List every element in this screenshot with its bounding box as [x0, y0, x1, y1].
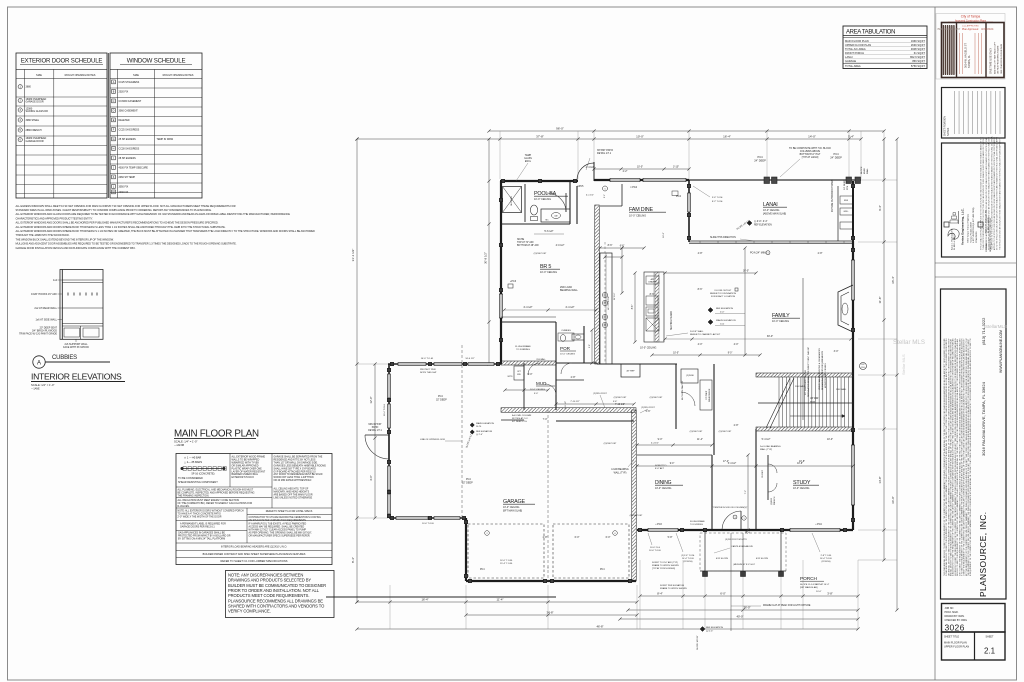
svg-text:16'-4": 16'-4"	[421, 598, 428, 602]
svg-text:10'-0" CEILING: 10'-0" CEILING	[534, 198, 551, 201]
stair bottom hatched wall	[756, 427, 853, 431]
svg-text:CONTRACTOR TO UTILIZE DECORATI: CONTRACTOR TO UTILIZE DECORATIVE CEMENTI…	[249, 516, 322, 519]
garage firewall top hatched	[501, 408, 636, 413]
top dimension line lower	[357, 138, 861, 140]
extension lines from top wall to dims	[499, 131, 501, 179]
svg-text:H: H	[113, 148, 115, 151]
line of upper floor dashed	[461, 345, 463, 518]
svg-text:36'-4": 36'-4"	[891, 276, 895, 284]
BR5 closet walls	[501, 321, 556, 323]
svg-text:PROTECT PER: PROTECT PER	[420, 369, 436, 371]
svg-text:48" COOKTOP: 48" COOKTOP	[608, 295, 610, 310]
svg-text:FRONT PORCH: FRONT PORCH	[845, 51, 864, 55]
pool bath vanity	[541, 209, 570, 222]
svg-text:OR MANUFACTURER SPECS SUPERSED: OR MANUFACTURER SPECS SUPERSEDE PER REFE…	[249, 534, 311, 537]
svg-text:City of Tampa: City of Tampa	[961, 15, 981, 19]
svg-text:9'-0": 9'-0"	[670, 463, 675, 465]
stamp inner box	[942, 23, 1005, 78]
svg-text:3060 CASEMENT: 3060 CASEMENT	[119, 110, 139, 113]
svg-text:E REQUIREMENT OF THE CURRENT F: E REQUIREMENT OF THE CURRENT FBC WE CANN…	[969, 338, 972, 576]
svg-text:FLUSH FRAME: FLUSH FRAME	[690, 520, 705, 523]
kitchen bearing wall hatched	[595, 205, 600, 364]
svg-text:+PC3: +PC3	[510, 280, 517, 283]
svg-text:6/12 SLOPE: 6/12 SLOPE	[716, 558, 729, 560]
svg-text:C/T PREP: C/T PREP	[706, 390, 708, 400]
door schedule row 5	[18, 128, 22, 132]
kitchen counters	[600, 253, 612, 364]
svg-text:PROJ. MGR.: PROJ. MGR.	[945, 611, 959, 614]
svg-text:16'-4" T.O.M.: 16'-4" T.O.M.	[820, 558, 832, 560]
svg-text:SIZE: SIZE	[133, 73, 139, 77]
svg-text:SLIDE THIS DIRECTION: SLIDE THIS DIRECTION	[710, 237, 736, 239]
svg-text:GARAGE DOOR: GARAGE DOOR	[26, 140, 44, 143]
svg-text:STRUCTURAL CERTIFICATION APPLI: STRUCTURAL CERTIFICATION APPLIES TO THE …	[980, 136, 983, 250]
svg-text:RESIDENCE AND ATTIC BY NOT LES: RESIDENCE AND ATTIC BY NOT LESS	[274, 458, 316, 461]
left overall dimension line	[356, 139, 358, 602]
kitchen dim lines	[634, 273, 636, 342]
svg-text:REF ELEVATION: REF ELEVATION	[716, 307, 733, 310]
svg-text:ALL EXTERIOR WINDOWS AND DOORS: ALL EXTERIOR WINDOWS AND DOORS SHALL BE …	[16, 221, 219, 225]
svg-text:FRAME FLAT AT PEAK FOR LIGHT F: FRAME FLAT AT PEAK FOR LIGHT FIXTURE	[763, 604, 811, 607]
svg-text:(X)2X6 POST: (X)2X6 POST	[614, 397, 627, 399]
svg-text:GARAGE DOOR INSTALLATION DETAI: GARAGE DOOR INSTALLATION DETAILS AND DAT…	[16, 246, 136, 250]
svg-text:GARAGE DOOR: GARAGE DOOR	[26, 101, 44, 104]
svg-text:34'-8": 34'-8"	[546, 611, 553, 615]
cooktop circles	[602, 292, 607, 297]
svg-text:2'-8": 2'-8"	[571, 376, 576, 379]
svg-text:DETAIL 1/7.1: DETAIL 1/7.1	[368, 429, 382, 432]
svg-text:TOP AT 72" AFF: TOP AT 72" AFF	[517, 241, 534, 244]
svg-text:AS PER OPENING. THE OPENING S: AS PER OPENING. THE OPENING SHALL BE MIN…	[249, 531, 313, 534]
svg-text:M: M	[113, 191, 115, 194]
svg-text:ES TO THE STRUCTURE ONLY AS SH: ES TO THE STRUCTURE ONLY AS SHOWN ON THE…	[996, 136, 999, 250]
title block divider line	[934, 7, 936, 680]
svg-text:7'-10 1/2": 7'-10 1/2"	[615, 403, 625, 406]
svg-text:ROUGH OPENING/NOTES: ROUGH OPENING/NOTES	[163, 74, 194, 77]
svg-text:WDB: WDB	[810, 401, 816, 403]
svg-text:COA 29639: COA 29639	[975, 231, 978, 243]
svg-text:BEARING WALL: BEARING WALL	[560, 289, 579, 292]
svg-text:C: C	[113, 100, 115, 103]
svg-text:10'-0" CEILING: 10'-0" CEILING	[793, 487, 809, 490]
svg-text:CUBBIES: CUBBIES	[52, 355, 77, 361]
svg-text:16'-4": 16'-4"	[723, 135, 731, 139]
ref elevation markers family	[708, 308, 713, 313]
svg-text:6'-8": 6'-8"	[620, 246, 625, 248]
svg-text:866 SQ/FT: 866 SQ/FT	[912, 59, 925, 63]
svg-text:SLIDING GLASS DR: SLIDING GLASS DR	[26, 110, 49, 113]
vortex engineering box	[942, 143, 1006, 257]
svg-text:REFER TO SHEET N.1 FOR LUMBER: REFER TO SHEET N.1 FOR LUMBER SPECIFICAT…	[221, 559, 288, 563]
left wing left wall	[388, 364, 390, 518]
svg-text:5'-0": 5'-0"	[534, 393, 539, 395]
svg-text:AND THE CITY HAS VALID COPY: AND THE CITY HAS VALID COPY	[993, 41, 996, 74]
svg-text:W/ TIES AT O.C.: W/ TIES AT O.C.	[512, 417, 529, 420]
svg-text:Nathan D. Hasbrook, P.E.: Nathan D. Hasbrook, P.E.	[985, 209, 988, 233]
svg-text:11'-4": 11'-4"	[497, 598, 504, 602]
svg-text:1: 1	[767, 253, 768, 255]
left wing bottom wall	[389, 517, 466, 519]
svg-text:ON FILE FROM WHICH DATE: ON FILE FROM WHICH DATE	[997, 45, 1000, 74]
svg-text:WALL (TYP): WALL (TYP)	[760, 448, 772, 451]
plan notes table	[176, 454, 332, 565]
svg-text:Stellar MLS: Stellar MLS	[901, 354, 906, 375]
svg-text:10'-0": 10'-0"	[673, 353, 679, 355]
svg-text:8'-6": 8'-6"	[698, 288, 703, 291]
shower	[503, 187, 522, 213]
lanai sliding door line	[689, 240, 853, 242]
svg-text:MAIN FLOOR PLAN: MAIN FLOOR PLAN	[845, 39, 869, 43]
svg-text:10'-0": 10'-0"	[636, 135, 644, 139]
svg-text:5'-6": 5'-6"	[646, 410, 651, 413]
svg-text:BARRIER UNDER FINAL: BARRIER UNDER FINAL	[232, 473, 259, 476]
svg-text:SOFFIT TO 8'-0" AFF (TYP): SOFFIT TO 8'-0" AFF (TYP)	[652, 561, 678, 564]
svg-text:(X)2X6 POST: (X)2X6 POST	[604, 443, 617, 445]
svg-text:TO FURRING: TO FURRING	[516, 349, 530, 351]
svg-text:OR SIMILAR APPROVED: OR SIMILAR APPROVED	[232, 464, 259, 467]
svg-text:LINE OF UPPER FLOOR: LINE OF UPPER FLOOR	[420, 439, 445, 441]
svg-text:46'-8": 46'-8"	[596, 625, 603, 629]
svg-text:24" DEEP: 24" DEEP	[830, 156, 842, 160]
svg-text:5F-16 (CONCRETE): 5F-16 (CONCRETE)	[192, 473, 215, 476]
door schedule row 1	[18, 85, 22, 89]
svg-text:ON STUCCOS PER JURISDICTION RE: ON STUCCOS PER JURISDICTION REQUIREMENTS	[249, 520, 307, 522]
svg-text:MULLIONS AND ADJACENT DOOR ASS: MULLIONS AND ADJACENT DOOR ASSEMBLIES AR…	[16, 242, 237, 246]
svg-text:2X6 WALL: 2X6 WALL	[836, 388, 847, 391]
foyer door arc	[722, 511, 741, 530]
svg-text:5'-4 1/2": 5'-4 1/2"	[728, 463, 737, 465]
door schedule row 4	[18, 118, 22, 122]
svg-text:Vortex Engineering, LLC.: Vortex Engineering, LLC.	[961, 208, 965, 245]
svg-text:BOTTOM 8'-0" HGT: BOTTOM 8'-0" HGT	[800, 154, 821, 156]
exterior wall: fam dine top with windows	[594, 179, 689, 181]
svg-text:WWW.PLANSONLINE.COM: WWW.PLANSONLINE.COM	[999, 330, 1003, 373]
BR5 left window	[499, 294, 502, 318]
svg-text:4'-4 1/2": 4'-4 1/2"	[523, 306, 532, 309]
svg-text:SLOPE CLG START AT 10'-4": SLOPE CLG START AT 10'-4"	[800, 583, 829, 586]
mud bench	[514, 366, 524, 380]
svg-text:2'-8": 2'-8"	[589, 344, 591, 348]
bottom extension lines	[389, 585, 391, 629]
svg-text:REFER TO FOUNDATION: REFER TO FOUNDATION	[710, 292, 736, 295]
svg-text:EXTERIOR DOOR SCHEDULE: EXTERIOR DOOR SCHEDULE	[21, 58, 103, 65]
svg-text:SCALE: 1/4" = 1'-0": SCALE: 1/4" = 1'-0"	[31, 383, 54, 387]
svg-text:6/12 SLOPE: 6/12 SLOPE	[756, 558, 769, 560]
svg-text:REFER TO SHEET 5.A FOR LINTEL: REFER TO SHEET 5.A FOR LINTEL SPECS	[266, 510, 313, 513]
svg-text:TO FURRING: TO FURRING	[690, 524, 703, 526]
svg-text:10'-8": 10'-8"	[797, 463, 803, 465]
vortex checkboxes	[944, 222, 949, 227]
right extension lines	[858, 179, 897, 181]
svg-text:R-VALUES.: R-VALUES.	[178, 505, 190, 508]
fam dine intermediate dim line	[594, 168, 689, 170]
svg-text:3080 STEEL: 3080 STEEL	[26, 119, 40, 122]
top dimension line upper	[489, 130, 884, 132]
svg-text:PATIO: PATIO	[372, 426, 379, 429]
svg-text:SLOPE 1/8"/12": SLOPE 1/8"/12"	[697, 635, 699, 650]
svg-text:8x8 CMU COLUMN: 8x8 CMU COLUMN	[512, 415, 532, 417]
svg-text:[9FT MAIN SLAB]: [9FT MAIN SLAB]	[503, 510, 522, 513]
svg-text:0'-0": 0'-0"	[720, 312, 725, 314]
svg-text:10'-0": 10'-0"	[816, 591, 822, 593]
svg-text:10'-0" CEILING: 10'-0" CEILING	[540, 271, 557, 274]
svg-text:STANDARD SIZES IN ALL WIND ZON: STANDARD SIZES IN ALL WIND ZONES. CLIENT…	[16, 208, 212, 212]
svg-text:REF ELEVATION: REF ELEVATION	[476, 430, 493, 433]
svg-text:FRENCH: FRENCH	[774, 496, 776, 505]
svg-text:SIZE: SIZE	[36, 73, 42, 77]
svg-text:OF THE (CURRENT FBC). REFER T: OF THE (CURRENT FBC). REFER TO ENERGY CA…	[178, 502, 253, 505]
svg-text:GARAGE DOORS PER R613.6.1: GARAGE DOORS PER R613.6.1	[180, 525, 215, 528]
right exterior wall	[852, 241, 854, 530]
svg-text:A PERMANENT LABEL IS REQUIRED: A PERMANENT LABEL IS REQUIRED FOR	[180, 523, 226, 526]
svg-text:ROUGH OPENING/NOTES: ROUGH OPENING/NOTES	[65, 74, 96, 77]
svg-text:INTERIOR LOAD BEARING HEADERS: INTERIOR LOAD BEARING HEADERS ARE (2)2X1…	[221, 546, 287, 549]
svg-text:SHOWER: SHOWER	[511, 196, 513, 206]
svg-text:PC4: PC4	[757, 155, 763, 159]
svg-text:PC4: PC4	[480, 569, 485, 571]
pool bath door arc	[547, 193, 566, 212]
svg-text:[9FT MAIN SLAB]: [9FT MAIN SLAB]	[800, 586, 818, 589]
svg-text:LAYER OF WATER RESISTANT: LAYER OF WATER RESISTANT	[232, 470, 266, 473]
svg-text:31'-1 1/2": 31'-1 1/2"	[351, 249, 355, 262]
svg-text:KNEE: KNEE	[864, 168, 866, 174]
svg-text:(X)2X6 POST: (X)2X6 POST	[719, 431, 732, 433]
svg-text:COAT HOOKS 15" AFF: COAT HOOKS 15" AFF	[31, 293, 58, 296]
window schedule row J	[112, 166, 116, 170]
right wall windows	[851, 260, 854, 300]
svg-text:W/ MANUFACTURERS REQUIREMENTS: W/ MANUFACTURERS REQUIREMENTS	[821, 350, 824, 390]
svg-text:REF ELEVATION: REF ELEVATION	[706, 626, 723, 629]
svg-text:FACE WITH PLYWOOD: FACE WITH PLYWOOD	[63, 346, 89, 349]
city of tampa approval stamp	[936, 14, 1005, 80]
svg-text:1-877-4VORTEX4 (1-877-486-7839: 1-877-4VORTEX4 (1-877-486-7839)	[973, 207, 975, 243]
lanai right columns	[852, 181, 854, 241]
svg-text:ALL EXTERIOR WOOD FRAME: ALL EXTERIOR WOOD FRAME	[232, 456, 266, 459]
svg-text:MC: MC	[545, 220, 549, 222]
cubbies rear wall line	[62, 307, 103, 309]
stamp left column dense text	[942, 25, 944, 75]
svg-text:Stellar MLS: Stellar MLS	[893, 339, 925, 346]
svg-text:G: G	[113, 138, 115, 141]
svg-text:THAN 1/2" DRYWALL ON GARAGE SI: THAN 1/2" DRYWALL ON GARAGE SIDE.	[274, 461, 319, 464]
svg-text:NOTE: ALL EXTERIOR DOORS WITHO: NOTE: ALL EXTERIOR DOORS WITHOUT COVERED…	[178, 510, 244, 513]
window schedule row F	[112, 128, 116, 132]
job number box	[942, 604, 1006, 633]
svg-text:(2)1'-6" T.O.M.: (2)1'-6" T.O.M.	[681, 555, 695, 557]
toilet	[530, 205, 537, 215]
svg-text:8'-6": 8'-6"	[632, 305, 634, 310]
svg-text:3'-0": 3'-0"	[834, 350, 839, 353]
svg-text:(2)2X10 POST: (2)2X10 POST	[593, 393, 607, 395]
garage center post line	[547, 410, 549, 581]
svg-text:GARAGES LESS BENEATH HABITABLE: GARAGES LESS BENEATH HABITABLE ROOMS	[274, 464, 327, 467]
svg-text:CUBBIES: CUBBIES	[561, 330, 571, 332]
mud and powder walls	[555, 322, 557, 410]
svg-text:2'-0" WIDE X THE WIDTH OF THE: 2'-0" WIDE X THE WIDTH OF THE DOOR	[178, 516, 222, 518]
svg-text:4'-0": 4'-0"	[734, 343, 739, 346]
svg-text:MAIN FLOOR PLAN: MAIN FLOOR PLAN	[174, 429, 259, 440]
svg-text:(-) 0'-4": (-) 0'-4"	[706, 631, 713, 633]
svg-text:9'-0": 9'-0"	[728, 353, 733, 355]
svg-text:1: 1	[734, 517, 735, 519]
svg-text:8'-0" AFT: 8'-0" AFT	[655, 467, 665, 470]
island sink X box	[646, 318, 659, 331]
svg-text:(MEDIUM 36" 8'-0" HGT: (MEDIUM 36" 8'-0" HGT	[733, 564, 755, 566]
svg-text:16'-4 1/2": 16'-4 1/2"	[465, 358, 474, 360]
island appliance boxes	[646, 296, 658, 305]
svg-text:(PORCH): (PORCH)	[822, 561, 831, 563]
svg-text:10'-0": 10'-0"	[827, 438, 833, 441]
cubbies elevation detail box	[60, 270, 103, 340]
svg-text:THE FRAMING INSPECTION.: THE FRAMING INSPECTION.	[178, 494, 210, 497]
window schedule row E	[112, 118, 116, 122]
svg-text:[TYP AT PORCH SIDES]: [TYP AT PORCH SIDES]	[652, 567, 675, 570]
svg-text:PC4: PC4	[600, 569, 605, 571]
svg-text:34'-0": 34'-0"	[891, 496, 895, 504]
svg-text:SEATING ISLAND: SEATING ISLAND	[670, 311, 673, 330]
svg-text:2'-11 1/2": 2'-11 1/2"	[565, 401, 567, 410]
svg-text:□ PC3: □ PC3	[655, 523, 662, 526]
svg-text:ARE BASED OFF THE MAIN FLOOR: ARE BASED OFF THE MAIN FLOOR	[274, 493, 313, 496]
svg-text:3/26/2024: 3/26/2024	[981, 27, 994, 31]
svg-text:VERIFY ALL DIMENSIONS & CLEARA: VERIFY ALL DIMENSIONS & CLEARANCES	[818, 347, 821, 390]
svg-text:Plan Approved: Plan Approved	[962, 28, 979, 31]
window schedule row C	[112, 99, 116, 103]
cubbies shelf lines	[62, 279, 103, 281]
window schedule row H	[112, 147, 116, 151]
builder note box	[226, 571, 335, 618]
lanai colonnade top	[689, 179, 861, 181]
svg-text:1x4: 1x4	[53, 279, 58, 282]
svg-text:61 SQ/FT: 61 SQ/FT	[914, 51, 926, 55]
svg-text:(X)2X6 POST: (X)2X6 POST	[630, 515, 643, 517]
pool bath interior walls	[501, 223, 570, 225]
sheet revision box	[942, 88, 1006, 139]
svg-text:---1AFNB: ---1AFNB	[174, 444, 184, 447]
svg-text:32" DEEP: 32" DEEP	[436, 399, 447, 402]
svg-text:SHALL HAVE 5/8" TYPE X GYP BOA: SHALL HAVE 5/8" TYPE X GYP BOARD.	[274, 467, 317, 470]
svg-text:□ PC4: □ PC4	[815, 523, 822, 526]
hall dim lines	[556, 403, 634, 405]
svg-text:4'-8": 4'-8"	[698, 252, 703, 255]
svg-text:SHEET: SHEET	[986, 636, 995, 639]
patio door at pool bath	[577, 163, 594, 180]
svg-text:BOTTOM AT 48" AFF: BOTTOM AT 48" AFF	[517, 244, 539, 247]
svg-text:4'-0": 4'-0"	[698, 343, 703, 346]
exterior wall: pool bath top	[500, 180, 578, 182]
pantry countertop	[700, 380, 712, 410]
house bottom wall dining-study	[637, 529, 853, 531]
svg-text:2X6WALL: 2X6WALL	[985, 241, 988, 252]
svg-text:10'-0" T.O.M.: 10'-0" T.O.M.	[421, 358, 434, 360]
svg-text:GYP BOARD ATTACHED PER R302.3.: GYP BOARD ATTACHED PER R302.3.0	[274, 470, 317, 473]
svg-text:7'-2": 7'-2"	[745, 490, 747, 495]
svg-text:---1ANE: ---1ANE	[31, 387, 40, 390]
door schedule row 3	[18, 108, 22, 112]
stair top hatched wall	[756, 373, 853, 377]
svg-text:MIN 36"X36": MIN 36"X36"	[368, 424, 381, 426]
svg-text:MAIN FLOOR PLAN: MAIN FLOOR PLAN	[944, 642, 967, 645]
svg-text:FLOOR OUTLET: FLOOR OUTLET	[715, 290, 732, 292]
svg-text:W/TS: W/TS	[508, 376, 514, 378]
svg-text:UPPER FLOOR PLAN: UPPER FLOOR PLAN	[845, 43, 871, 47]
svg-text:JOB NO: JOB NO	[945, 607, 954, 610]
svg-text:2X6 WALL: 2X6 WALL	[536, 358, 546, 361]
svg-text:CANTILEVER ABOVE: CANTILEVER ABOVE	[731, 545, 753, 548]
svg-text:W/D: W/D	[517, 374, 521, 376]
svg-text:INTERIOR ELEVATIONS: INTERIOR ELEVATIONS	[31, 372, 122, 382]
svg-text:BLD-24-0653657: BLD-24-0653657	[938, 27, 961, 31]
svg-text:SCALE: 1/4" = 1'-0": SCALE: 1/4" = 1'-0"	[174, 440, 197, 444]
svg-text:R/2: R/2	[862, 364, 865, 366]
svg-text:25 SH EGRESS: 25 SH EGRESS	[119, 138, 137, 141]
svg-text:6'-0": 6'-0"	[720, 592, 726, 596]
ref elevation bottom	[700, 627, 705, 632]
svg-text:3680: 3680	[26, 86, 32, 89]
svg-text:4608 SQ/FT: 4608 SQ/FT	[911, 47, 926, 51]
study walls	[755, 429, 757, 530]
svg-text:4'-4 1/2": 4'-4 1/2"	[565, 306, 574, 309]
svg-text:APPLIES TO THE STRUCTURE ONLY: APPLIES TO THE STRUCTURE ONLY AS SHOWN O…	[993, 137, 996, 250]
svg-text:10'-0": 10'-0"	[637, 166, 643, 169]
svg-text:NOTE THIS SHT: NOTE THIS SHT	[420, 372, 437, 374]
svg-text:2'-2": 2'-2"	[623, 170, 628, 173]
svg-text:SHEAR RESISTING COMPONENT: SHEAR RESISTING COMPONENT	[178, 481, 218, 484]
plansource info box	[941, 289, 1007, 599]
svg-text:18.0: 18.0	[861, 367, 865, 369]
svg-text:THE STRUCTURE ONLY AS SHOWN ON: THE STRUCTURE ONLY AS SHOWN ON THESE SEA…	[998, 137, 1001, 250]
svg-text:GLASS: GLASS	[524, 157, 532, 160]
svg-text:16'-0": 16'-0"	[663, 232, 665, 238]
svg-text:Aaron J. Hasbrook, P.E.: Aaron J. Hasbrook, P.E.	[950, 228, 953, 250]
svg-text:BLOCK: BLOCK	[861, 166, 863, 174]
svg-text:10'-0" CEILING: 10'-0" CEILING	[655, 487, 671, 490]
svg-text:GARAGE: GARAGE	[845, 59, 856, 63]
right dimension line outer	[896, 139, 898, 610]
svg-text:[ABOVE MAIN SLAB]: [ABOVE MAIN SLAB]	[763, 213, 786, 216]
wave elevation garage notes	[470, 423, 474, 427]
svg-text:4'-0 1/2": 4'-0 1/2"	[556, 244, 565, 247]
svg-text:24-1/8" WALL: 24-1/8" WALL	[690, 330, 704, 333]
svg-text:10'-0" CEILING: 10'-0" CEILING	[640, 347, 656, 350]
svg-text:2060 SH TEMP: 2060 SH TEMP	[119, 176, 136, 179]
svg-text:5'-8": 5'-8"	[668, 536, 673, 539]
svg-text:(X)2X6 POST: (X)2X6 POST	[650, 397, 663, 399]
svg-text:FUTURE OUTDOOR KITCHEN: FUTURE OUTDOOR KITCHEN	[832, 179, 834, 212]
svg-text:11'-8": 11'-8"	[878, 297, 882, 304]
left wing top wall with columns	[388, 363, 501, 365]
svg-text:WAIVE ELEVATION: WAIVE ELEVATION	[716, 319, 736, 322]
svg-text:BE COMPLETE, INSPECTED, AND AP: BE COMPLETE, INSPECTED, AND APPROVED BEF…	[178, 491, 255, 494]
svg-text:5'-2": 5'-2"	[604, 194, 606, 198]
svg-text:(2)2X10 POST: (2)2X10 POST	[641, 407, 655, 409]
svg-text:30'-0": 30'-0"	[743, 270, 749, 273]
svg-text:REF ELEVATION: REF ELEVATION	[754, 224, 772, 227]
svg-text:NICHE: NICHE	[517, 239, 525, 241]
svg-text:4'-1 1/2": 4'-1 1/2"	[586, 195, 594, 197]
svg-text:2X6 WALL: 2X6 WALL	[795, 385, 806, 388]
left extension stubs	[357, 363, 388, 365]
family fireplace	[838, 285, 853, 332]
svg-text:FRAME TO WIDTH SHOWN: FRAME TO WIDTH SHOWN	[652, 564, 679, 567]
svg-text:(PORCH): (PORCH)	[684, 561, 693, 563]
svg-text:DETAIL 1/7.1: DETAIL 1/7.1	[597, 152, 612, 155]
svg-text:ONE TIME USE ONLY: ONE TIME USE ONLY	[989, 48, 993, 74]
svg-text:1x6 AT SIDE WALL: 1x6 AT SIDE WALL	[36, 319, 58, 322]
svg-text:10'-0" T.O.M.: 10'-0" T.O.M.	[422, 523, 434, 525]
svg-text:12'-0": 12'-0"	[369, 396, 373, 403]
svg-text:8'-4": 8'-4"	[351, 557, 355, 563]
